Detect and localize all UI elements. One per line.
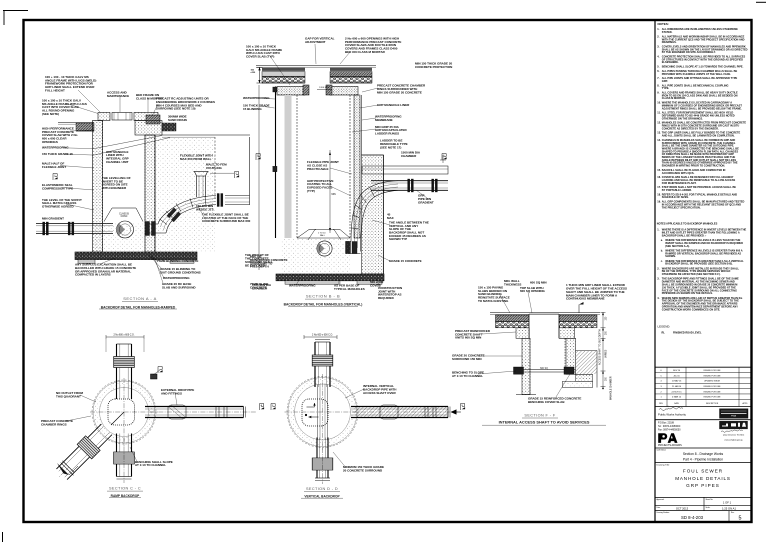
svg-text:FULL HEIGHT: FULL HEIGHT [45,88,65,92]
svg-text:P.O.Box: 22188: P.O.Box: 22188 [658,423,675,425]
right panel divider [654,20,656,522]
D-D top dim bracket [304,336,337,338]
svg-text:VERTICAL BACKDROP: VERTICAL BACKDROP [304,494,340,498]
svg-text:Rev.: Rev. [731,512,735,514]
svg-text:THICKNESS: THICKNESS [504,282,521,286]
B-B waterstop markers left wall [273,87,277,92]
B-B channel circle [317,241,332,256]
svg-text:PROVIDED WITH FLEXIBLE JOINTS: PROVIDED WITH FLEXIBLE JOINTS AT THE WAL… [662,72,731,76]
svg-text:ISSUED FOR USE: ISSUED FOR USE [704,370,722,372]
svg-text:FULL DEPTH: FULL DEPTH [250,265,269,269]
svg-text:GRP PIPES: GRP PIPES [686,483,720,488]
svg-text:TYPICAL MANHOLES: TYPICAL MANHOLES [334,287,365,291]
B-B interior dim line [329,150,331,233]
B-B soil under benching [281,238,350,274]
svg-text:Sheet No.: Sheet No. [706,498,714,501]
svg-text:NOTES:: NOTES: [658,22,669,26]
svg-text:SLAB AND SURROUND: SLAB AND SURROUND [162,285,196,289]
C-C bottom pipe [116,434,118,477]
svg-text:BENCHING COVER SLAB: BENCHING COVER SLAB [528,400,565,404]
svg-text:5.: 5. [657,65,659,69]
svg-text:ACCESS SHAFT TO SUIT DEPTH: ACCESS SHAFT TO SUIT DEPTH [599,329,602,365]
section A-A soil below chamber [95,222,145,252]
svg-text:6.: 6. [657,69,659,73]
svg-text:DESCRIPTION: DESCRIPTION [706,403,719,405]
C-C benching rounded square [108,399,135,425]
svg-text:CONCRETE: CONCRETE [250,286,267,290]
svg-text:(SEE NOTE 17): (SEE NOTE 17) [380,145,401,149]
svg-text:ELSEWHERE.: ELSEWHERE. [662,60,679,64]
svg-text:AT 1:10 TO CHANNEL: AT 1:10 TO CHANNEL [452,374,483,378]
F-F right ground line [576,350,598,352]
svg-text:Public Works Authority: Public Works Authority [658,412,687,416]
svg-text:15.: 15. [657,168,661,172]
svg-text:MIN: MIN [332,194,337,196]
F-F cobble band right [559,322,597,328]
section A-A chamber left wall [93,121,103,253]
svg-text:75MM BLINDING CONCRETE: 75MM BLINDING CONCRETE [157,259,198,263]
svg-text:TO MATCH EXISTING: TO MATCH EXISTING [478,299,509,303]
svg-text:11 MAY 16: 11 MAY 16 [672,380,682,383]
D-D outer dashed circle [287,377,358,448]
svg-text:CHAMBER: CHAMBER [401,154,417,158]
F-F left upper wall [516,328,529,339]
section A-A ground line left [58,122,94,124]
D-D top pipe [314,342,316,387]
svg-text:DATE: DATE [674,402,679,405]
B-B road wearing course right [330,68,372,71]
svg-text:MANHOLE CHAMBER: MANHOLE CHAMBER [610,376,613,400]
svg-text:MIN 150 GRADE 20 CONCRETE: MIN 150 GRADE 20 CONCRETE [377,90,422,94]
svg-text:21 JAN 16: 21 JAN 16 [672,385,682,388]
F-F cobble band left [496,322,530,328]
D-D pipe end arrow [451,409,457,414]
svg-text:600 SQ MIN: 600 SQ MIN [530,280,547,284]
svg-text:NOTES APPLICABLE TO BACKDROP M: NOTES APPLICABLE TO BACKDROP MANHOLES [657,221,718,225]
ashghal logo [720,421,748,429]
B-B road wearing course left [262,68,305,71]
F-F slab end fixings [514,367,524,374]
B-B road base course right (hatched) [330,72,372,77]
svg-text:GRADIENT: GRADIENT [418,200,434,204]
B-B incoming pipe right [371,180,448,182]
svg-text:AND FITTINGS: AND FITTINGS [161,392,182,396]
public works authority block [659,407,683,410]
svg-text:BY PORTABLE LADDER.: BY PORTABLE LADDER. [662,188,692,192]
F-F asphalt hatch band right [559,315,597,322]
trim tick top-right [756,1,766,3]
svg-text:FOUL SEWER: FOUL SEWER [683,469,723,474]
C-C top pipe [116,344,118,399]
svg-text:CHANNEL UNIT: CHANNEL UNIT [106,160,129,164]
svg-text:OTHERWISE BE AFFECTED (SEE SEC: OTHERWISE BE AFFECTED (SEE SECTION F-F). [662,272,721,276]
B-B interior top dim [317,89,332,91]
B-B base slab [276,274,384,281]
svg-text:BACKDROP SHALL BE PROVIDED :-: BACKDROP SHALL BE PROVIDED :- [662,233,707,237]
svg-text:19.: 19. [657,200,661,204]
svg-text:FLEXIBLE JOINT: FLEXIBLE JOINT [42,165,66,169]
svg-text:(TYP): (TYP) [307,189,315,193]
svg-text:SHOWN TYP: SHOWN TYP [389,237,407,241]
B-B concrete surround [362,155,384,274]
trim tick bottom-left [2,532,4,542]
svg-text:SAND DRAIN: SAND DRAIN [168,118,187,122]
svg-text:COVER: COVER [370,283,382,287]
svg-text:QCS Edition: QCS Edition [657,448,666,451]
svg-text:SCHEDULE OF SIZES.: SCHEDULE OF SIZES. [662,195,689,199]
svg-text:11.: 11. [657,111,661,115]
C-C centrelines [90,411,158,413]
svg-text:SURROUND 150 MIN: SURROUND 150 MIN [452,357,482,361]
svg-text:4 MAR 14: 4 MAR 14 [672,396,682,399]
B-B road cobble bedding left [262,77,305,83]
svg-text:Date:: Date: [657,506,662,509]
F-F lower right steps [576,374,593,381]
F-F corbel lines [522,337,529,339]
svg-text:RAMPED OR VERTICAL BACKDROP SH: RAMPED OR VERTICAL BACKDROP SHALL BE PRO… [665,251,741,255]
section A-A benching trapezoid [104,208,143,222]
revision table [655,366,752,368]
B-B bend segment ticks [383,184,384,193]
svg-text:1:25 ON A1: 1:25 ON A1 [722,507,736,511]
svg-text:GRP MANHOLE LINER: GRP MANHOLE LINER [377,103,410,107]
svg-text:. . . . . . . .: . . . . . . . . [575,376,585,378]
svg-text:DRAWINGS.: DRAWINGS. [662,40,677,44]
svg-text:a.: a. [661,239,663,242]
svg-text:www.ashghal.gov.qa: www.ashghal.gov.qa [724,440,743,442]
svg-text:WATERPROOFING: WATERPROOFING [243,96,270,100]
B-B backdrop drop bend [351,181,398,242]
svg-text:VARIES: VARIES [605,349,608,358]
svg-text:ISSUED FOR USE: ISSUED FOR USE [704,375,722,377]
svg-text:Section 8 - Drainage Works: Section 8 - Drainage Works [683,452,724,456]
C-C right pipe coupling hexagon [168,405,186,419]
B-B bench trapezoid [308,230,341,241]
svg-text:FINISHED ROAD LEVEL: FINISHED ROAD LEVEL [673,332,702,335]
B-B cover slab [277,87,305,96]
F-F flag marker top [579,302,584,305]
svg-text:1.: 1. [657,27,659,31]
svg-text:5: 5 [739,516,742,522]
svg-text:600 SQ: 600 SQ [540,368,548,370]
svg-text:COMPRESSION TYPE: COMPRESSION TYPE [42,187,73,191]
svg-text:16.: 16. [657,175,661,179]
B-B road base course left [262,72,305,77]
svg-text:1.: 1. [657,228,659,232]
svg-text:FALL: FALL [320,234,326,237]
svg-text:BACKDROP SHALL BE PROVIDED (SE: BACKDROP SHALL BE PROVIDED (SEE SECTION … [665,262,733,266]
svg-text:UNITS 600 SQ MIN: UNITS 600 SQ MIN [455,336,481,340]
B-B sub-base lines [262,82,305,84]
svg-text:MANHOLE DETAILS: MANHOLE DETAILS [675,476,731,481]
section A-A backdrop ramp pipe [225,195,250,197]
svg-text:AND ALL JOINTS SHALL BE LAMINA: AND ALL JOINTS SHALL BE LAMINATED ON COM… [662,134,735,138]
B-B road surface lines [256,65,376,67]
svg-text:SUIT GROUND CONDITIONS: SUIT GROUND CONDITIONS [160,270,201,274]
backdrop elbow bend [158,196,216,225]
svg-text:CHAMBER RINGS: CHAMBER RINGS [41,423,67,427]
svg-text:1 OF 1: 1 OF 1 [723,501,732,505]
svg-text:BED ON CLASS M MORTAR: BED ON CLASS M MORTAR [345,50,386,54]
svg-text:CONTINUOUS MEMBRANE: CONTINUOUS MEMBRANE [566,297,605,301]
svg-text:MEMBRANE: MEMBRANE [375,118,393,122]
svg-text:CONSTRUCTION WORK COMMENCES ON: CONSTRUCTION WORK COMMENCES ON SITE. [662,307,721,311]
svg-text:4.: 4. [657,55,659,59]
svg-text:CONCRETE PROTECTION: CONCRETE PROTECTION [415,65,452,69]
B-B right wall [349,95,351,238]
svg-text:ISSUED FOR USE: ISSUED FOR USE [704,397,722,399]
B-B benching [297,230,316,239]
svg-text:9.: 9. [657,91,659,95]
svg-text:Drawing Title:: Drawing Title: [657,464,671,467]
svg-text:MIN GRADIENT: MIN GRADIENT [42,216,64,220]
C-C wall annulus [93,381,155,443]
title block bottom rows [703,497,705,510]
svg-text:CONCRETE AS DIRECTED BY THE EN: CONCRETE AS DIRECTED BY THE ENGINEER. [662,126,719,130]
F-F asphalt hatch band left [496,315,530,322]
svg-text:PWA: PWA [731,415,736,418]
svg-text:Fax: 00974-44950050: Fax: 00974-44950050 [658,430,681,432]
section A-A cover slab and frame [98,113,110,121]
svg-text:OPENINGS: OPENINGS [42,140,58,144]
svg-text:Tel : 00974-44950000: Tel : 00974-44950000 [658,426,681,428]
corner trim mark top-left [3,10,28,12]
svg-text:7.: 7. [657,76,659,80]
svg-text:8.: 8. [657,83,659,87]
svg-text:PROJECTS AFFAIRS: PROJECTS AFFAIRS [658,444,682,447]
svg-text:2 No 600 x 600 C.O.: 2 No 600 x 600 C.O. [114,335,135,337]
D-D wall annulus [288,378,357,447]
svg-text:1 TO 10: 1 TO 10 [318,233,326,235]
svg-text:2.: 2. [657,34,659,38]
svg-text:WATERPROOFING: WATERPROOFING [42,146,69,150]
svg-text:THE PROJECT SPECIFICATION.: THE PROJECT SPECIFICATION. [662,205,701,209]
svg-text:CONCRETE SURROUND MAX 600: CONCRETE SURROUND MAX 600 [202,219,251,223]
svg-text:CLASS M MORTAR.: CLASS M MORTAR. [662,96,686,100]
F-F right wall [566,338,576,374]
section A-A slab right extension [135,121,162,136]
PWA small logo [720,409,749,418]
svg-text:12.: 12. [657,121,661,125]
A-A slope coupling block [167,208,181,223]
svg-text:THIS QUADRANT: THIS QUADRANT [56,395,81,399]
B-B flag D left [256,154,260,161]
svg-text:CLASS B: CLASS B [119,213,129,216]
B-B excavation boundary left [258,85,260,270]
svg-text:GRADE 15 CONCRETE: GRADE 15 CONCRETE [389,259,422,263]
C-C diagonal pipe [52,422,114,484]
svg-text:ACCESS SHAFT OVER: ACCESS SHAFT OVER [363,391,397,395]
svg-text:SECTION C - C: SECTION C - C [109,487,141,491]
section A-A channel invert circle [117,221,134,238]
svg-text:ADJUSTMENT RINGS SHALL BE PROV: ADJUSTMENT RINGS SHALL BE PROVIDED BELOW… [662,106,742,110]
F-F mid slab bar [516,369,576,371]
svg-text:GRP.: GRP. [662,79,668,83]
svg-text:ACCORDANCE WITH QCS.: ACCORDANCE WITH QCS. [662,171,695,175]
B-B road cobble bedding right [330,77,372,83]
B-B cover frame blocks [303,85,309,95]
svg-text:2.: 2. [657,266,659,270]
D-D centrelines [285,411,361,413]
section A-A chamber right wall [145,135,155,252]
svg-text:(SEE SECTION A-A).: (SEE SECTION A-A). [665,244,690,248]
svg-text:CONC: CONC [121,216,128,218]
svg-text:3.: 3. [657,44,659,48]
svg-text:INTERNAL ACCESS SHAFT TO AVOID: INTERNAL ACCESS SHAFT TO AVOID SERVICES [499,420,590,425]
svg-text:WATERPROOFING: WATERPROOFING [163,276,190,280]
svg-text:WEDGE JTS: WEDGE JTS [196,207,214,211]
svg-text:600 SQ OPENING: 600 SQ OPENING [520,289,546,293]
section A-A incoming pipe left [36,223,113,225]
C-C top dim bracket [106,336,144,338]
backdrop entry coupling [146,222,150,236]
svg-text:ALL DIMENSIONS ARE IN MILLIMET: ALL DIMENSIONS ARE IN MILLIMETRES UNLESS… [662,27,738,31]
svg-text:24 NOV 15: 24 NOV 15 [672,391,683,393]
B-B flag D right [442,154,446,161]
D-D internal channel lines [317,385,319,440]
svg-text:TYPE.: TYPE. [662,86,670,90]
svg-text:BENCHING SHALL SLOPE AT 1:10 T: BENCHING SHALL SLOPE AT 1:10 TOWARDS THE… [662,65,744,69]
A-A section flag C right [235,172,239,179]
svg-text:18.: 18. [657,192,661,196]
F-F right upper wall [559,328,575,339]
svg-text:3.: 3. [657,277,659,281]
svg-text:Qatar Deserves The Best: Qatar Deserves The Best [723,433,745,436]
C-C right pipe [145,406,244,408]
flag A (C-C right) [260,404,264,411]
svg-text:4.: 4. [657,296,659,300]
svg-text:OTHERWISE AGREED: OTHERWISE AGREED [42,205,75,209]
svg-text:PIPEWORK AS SHOWN ON THE DETAI: PIPEWORK AS SHOWN ON THE DETAILS. [662,291,713,295]
svg-text:SECTION A - A: SECTION A - A [123,296,157,301]
section A-A ground line right [162,134,250,136]
A-A elbow segment ticks [205,196,206,205]
C-C right pipe ticks [215,407,217,418]
svg-text:REQUIRED: REQUIRED [378,296,395,300]
F-F left wall [522,338,530,394]
svg-text:WATERPROOFING: WATERPROOFING [289,283,316,287]
svg-text:COVER SLAB (TYP): COVER SLAB (TYP) [246,54,274,58]
svg-text:APPD: APPD [743,402,749,405]
svg-text:Part 4 - Pipeline Installation: Part 4 - Pipeline Installation [683,457,723,461]
B-B left wall [275,87,277,239]
svg-text:b.: b. [661,248,664,252]
svg-text:OTHERWISE ON THE DRAWINGS.: OTHERWISE ON THE DRAWINGS. [662,116,703,120]
PA projects affairs logotype [658,433,667,443]
svg-text:(SEE NOTE): (SEE NOTE) [42,112,59,116]
svg-text:COUPLING: COUPLING [206,166,223,170]
svg-text:20 CONCRETE SURROUND: 20 CONCRETE SURROUND [343,468,383,472]
D-D internal backdrop detail [302,399,328,426]
svg-text:PRACTICABLE: PRACTICABLE [307,167,329,171]
C-C channel diagonal [111,412,124,425]
svg-text:150 THICK GRADE 15: 150 THICK GRADE 15 [42,152,73,156]
A-A rodding eye stub [196,176,198,197]
svg-text:UPDATED ISSUE: UPDATED ISSUE [704,380,721,383]
svg-text:10.: 10. [657,101,661,105]
section A-A soil region right [155,137,215,252]
svg-text:RAMP BACKDROP: RAMP BACKDROP [111,494,141,498]
F-F left wall below [516,394,536,396]
svg-text:AT 1:10 TO CHANNEL: AT 1:10 TO CHANNEL [135,463,166,467]
F-F road surface lines [490,312,600,314]
svg-text:17.: 17. [657,185,661,189]
svg-text:Drawing Number:: Drawing Number: [657,511,671,514]
svg-text:STATED.: STATED. [662,30,673,34]
flag F (C-C right) [271,404,275,411]
svg-text:OCT 2013: OCT 2013 [676,507,689,511]
svg-text:ISSUED FOR USE: ISSUED FOR USE [704,391,722,393]
svg-text:14.: 14. [657,138,661,142]
svg-text:Approved:: Approved: [657,498,665,501]
D-D right pipe couplings [380,405,398,419]
C-C top pipe coupling [114,357,135,368]
svg-text:NOV 16: NOV 16 [673,370,681,372]
svg-text:ALL PIPE JOINTS SHALL BE MECHA: ALL PIPE JOINTS SHALL BE MECHANICAL COUP… [662,83,729,87]
A-A section flag C left [53,174,57,181]
svg-text:13.: 13. [657,131,661,135]
svg-text:BY THE ENGINEER ON SITE ACCORD: BY THE ENGINEER ON SITE ACCORDINGLY. [662,50,716,54]
C-C small detail square [151,374,158,379]
svg-text:SURROUND (SEE NOTE 10): SURROUND (SEE NOTE 10) [156,107,196,111]
F-F shaft opening frame [528,314,530,338]
svg-text:LADDER RUNGS: LADDER RUNGS [375,132,399,136]
svg-text:SECTION D - D: SECTION D - D [306,487,338,491]
svg-text:ENGINEER IN WRITING PRIOR TO C: ENGINEER IN WRITING PRIOR TO CONSTRUCTIO… [662,164,725,168]
D-D right pipe with surround hatch [355,407,448,418]
svg-text:MAX: MAX [387,216,394,220]
svg-text:ALL PIPE JOINTS AND FITTINGS S: ALL PIPE JOINTS AND FITTINGS SHALL BE AP… [662,76,738,80]
F-F dim chain right [602,312,604,387]
svg-text:SD 8-4-203: SD 8-4-203 [681,515,704,520]
C-C outer dashed circle [92,380,156,444]
svg-text:JUL 16: JUL 16 [673,375,680,377]
svg-text:WITH ENGINEER: WITH ENGINEER [102,186,127,190]
svg-text:SECTION B - B: SECTION B - B [306,294,340,299]
section A-A leader diagonals [92,136,162,150]
svg-text:MAINTENANCE: MAINTENANCE [107,94,129,98]
svg-text:RL: RL [662,332,666,335]
svg-text:LEGEND:: LEGEND: [658,325,671,329]
svg-text:COMPACTED IN LAYERS: COMPACTED IN LAYERS [75,273,111,277]
svg-text:MAX 600 FROM WALL: MAX 600 FROM WALL [180,157,212,161]
svg-text:SHOWN.: SHOWN. [665,254,676,258]
svg-text:ISSUED FOR USE: ISSUED FOR USE [704,386,722,388]
svg-text:SECTION F - F: SECTION F - F [524,413,555,417]
svg-text:1200 MIN: 1200 MIN [319,87,329,89]
B-B backdrop entry coupling [346,242,351,254]
svg-text:c.: c. [661,260,663,263]
svg-text:FOR MAINTENANCE PLANT.: FOR MAINTENANCE PLANT. [662,181,697,185]
C-C north arrow [57,463,69,475]
svg-text:15 BLINDING: 15 BLINDING [243,107,262,111]
svg-text:ADJUSTMENT: ADJUSTMENT [305,40,326,44]
pipe flanges left [43,222,45,235]
B-B pipe bedding band right [362,166,448,174]
section A-A base slab [75,252,197,260]
svg-text:2 No 600 x 600 C.O.: 2 No 600 x 600 C.O. [312,335,333,337]
flag E (D-D right) [461,404,465,411]
D-D bottom pipe [316,438,318,479]
svg-text:Scale:: Scale: [706,507,711,509]
